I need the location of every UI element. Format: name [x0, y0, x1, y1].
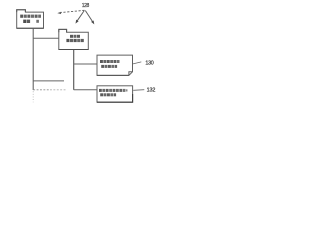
folder F2 (case folder) — [59, 29, 89, 49]
doc box label line 1 — [100, 60, 120, 63]
svg-text:132: 132 — [147, 88, 156, 94]
folder F1 (top-level folder) — [17, 10, 44, 29]
scan-dark tab folder F1 — [17, 10, 26, 12]
scan-dark bottom edge folder F2 — [59, 49, 89, 51]
scan-dark bottom edge folder F1 — [17, 27, 44, 29]
connector from case folder down — [73, 50, 75, 90]
branch wire (corner) to placeholder object — [74, 89, 97, 91]
branch wire to document file object — [74, 63, 97, 65]
folder F1 label line 2 — [23, 20, 39, 23]
doc box label line 2 — [101, 65, 117, 68]
scan-dark edges placeholder box — [97, 94, 133, 102]
placeholder object box (132) with dog-ear — [97, 86, 133, 102]
document file object box (130) with dog-ear — [97, 55, 133, 75]
lead line to 130 — [133, 62, 141, 64]
placeholder box label line 1 — [99, 89, 128, 92]
tree trunk dashed continuation — [32, 91, 34, 102]
placeholder box label line 2 — [100, 93, 116, 96]
branch wire dashed (more folders) — [33, 89, 50, 91]
folder F1 label line 1 — [20, 15, 41, 18]
lead line (dashed arrow) from 128 to folder F1 — [57, 10, 84, 14]
folder F2 label line 1 — [70, 35, 80, 38]
scan-dark tab folder F2 — [59, 29, 67, 32]
background — [0, 0, 159, 120]
branch wire (stub, second case folder) — [33, 80, 64, 82]
lead line to 132 — [133, 89, 144, 92]
tree trunk from folder F1 (vertical, solid part) — [32, 29, 34, 90]
svg-text:128: 128 — [82, 3, 90, 9]
folder F2 label line 2 — [66, 39, 83, 42]
lead line (solid arrow) from 128 down-left to case folder — [76, 11, 85, 24]
scan-dark bottom edge doc box — [97, 74, 129, 76]
branch wire to case folder — [33, 37, 59, 39]
svg-text:130: 130 — [145, 60, 153, 66]
lead line (solid arrow) from 128 down-right — [85, 11, 94, 25]
